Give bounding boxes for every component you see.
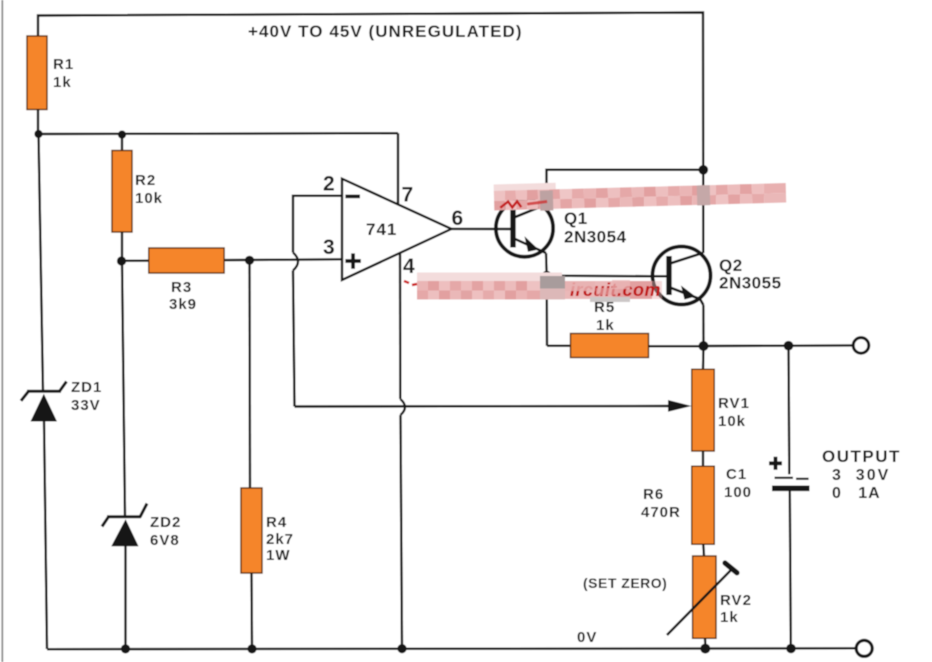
node junction output-RV1 bbox=[699, 341, 709, 351]
wire C1 branch top bbox=[787, 346, 790, 475]
svg-text:1k: 1k bbox=[53, 74, 72, 91]
svg-text:Q1: Q1 bbox=[564, 209, 588, 228]
svg-text:3k9: 3k9 bbox=[169, 296, 197, 313]
wire left vertical to ZD1 bbox=[39, 134, 44, 392]
node junction R4 branch bbox=[245, 256, 254, 265]
wire Q1 collector up and across bbox=[547, 170, 704, 205]
svg-text:R6: R6 bbox=[643, 486, 664, 503]
wire R4 branch upper bbox=[248, 260, 251, 488]
svg-text:4: 4 bbox=[403, 255, 415, 278]
watermark band 2 bbox=[404, 273, 662, 303]
transistor Q1 bbox=[496, 200, 553, 257]
wire feedback horizontal to RV1 wiper bbox=[295, 405, 673, 408]
potentiometer RV1 bbox=[692, 369, 714, 451]
zener ZD2 bbox=[102, 504, 147, 547]
potentiometer RV2 bbox=[693, 556, 716, 638]
svg-text:3: 3 bbox=[323, 236, 335, 259]
svg-text:3 30V: 3 30V bbox=[832, 467, 890, 484]
svg-text:470R: 470R bbox=[641, 504, 681, 521]
gray block band 2 bbox=[540, 276, 565, 289]
svg-text:10k: 10k bbox=[135, 190, 163, 207]
resistor R1 bbox=[27, 36, 47, 110]
svg-text:7: 7 bbox=[402, 184, 414, 207]
svg-text:1W: 1W bbox=[266, 547, 291, 564]
wire pin4 to ground rail with hop bbox=[399, 254, 402, 400]
wire rail2 bbox=[38, 132, 398, 135]
wire ZD1 to bottom rail bbox=[44, 420, 47, 649]
op-amp U1 741 triangle bbox=[342, 179, 451, 280]
svg-text:2N3054: 2N3054 bbox=[564, 228, 627, 247]
svg-text:R2: R2 bbox=[135, 172, 156, 189]
watermark band 1 bbox=[494, 177, 787, 212]
svg-text:2: 2 bbox=[323, 173, 335, 196]
wire Q1 emitter to Q2 base bbox=[547, 275, 667, 278]
wire to R5 left bbox=[547, 345, 571, 347]
node junction rail-ZD2 bbox=[121, 644, 130, 653]
transistor Q2 bbox=[653, 247, 711, 306]
wire C1 bottom bbox=[790, 491, 791, 649]
svg-text:RV1: RV1 bbox=[718, 395, 750, 412]
gray strip under band 2 bbox=[590, 297, 630, 302]
node junction rail-R4 bbox=[247, 644, 256, 653]
resistor R3 bbox=[149, 248, 224, 273]
red remnant in band 1 bbox=[500, 201, 521, 208]
node junction rail-pin4 bbox=[397, 644, 406, 653]
wire ZD2 branch upper bbox=[122, 261, 125, 517]
resistor R6 bbox=[692, 466, 715, 544]
red dots left of band 2 bbox=[404, 281, 417, 285]
node junction rail2-left bbox=[34, 130, 42, 138]
wire R5 right stub bbox=[649, 345, 704, 347]
svg-text:1k: 1k bbox=[596, 317, 615, 334]
terminal output minus bbox=[856, 640, 872, 656]
RV2 wiper diagonal bbox=[667, 570, 732, 636]
svg-text:R3: R3 bbox=[171, 279, 192, 296]
svg-text:+40V TO 45V (UNREGULATED): +40V TO 45V (UNREGULATED) bbox=[248, 22, 523, 41]
terminal output plus bbox=[853, 338, 869, 354]
wire pin6 to Q1 base bbox=[451, 228, 510, 231]
svg-text:2k7: 2k7 bbox=[266, 531, 294, 548]
svg-text:R1: R1 bbox=[53, 56, 74, 73]
wire bottom rail bbox=[47, 647, 856, 650]
node junction collector rail bbox=[699, 165, 709, 175]
wire RV2 to bottom rail bbox=[704, 638, 707, 649]
wire R1 bottom to rail2 bbox=[37, 109, 39, 134]
node junction output-C1 bbox=[784, 341, 794, 351]
wire R3 row bbox=[122, 259, 342, 261]
zener ZD1 bbox=[21, 382, 67, 422]
svg-text:(SET ZERO): (SET ZERO) bbox=[583, 575, 667, 591]
resistor R4 bbox=[241, 488, 262, 573]
svg-text:Q2: Q2 bbox=[719, 256, 743, 275]
svg-text:33V: 33V bbox=[71, 397, 101, 414]
svg-text:ZD2: ZD2 bbox=[150, 514, 181, 531]
node junction R2-ZD2 bbox=[117, 256, 126, 265]
svg-text:6: 6 bbox=[452, 207, 464, 230]
svg-text:C1: C1 bbox=[726, 466, 747, 483]
arrowhead RV1 wiper bbox=[668, 400, 692, 412]
op-amp minus sign bbox=[345, 195, 360, 199]
wire Q2 emitter down bbox=[702, 305, 704, 346]
RV2 wiper T-bar bbox=[725, 563, 737, 573]
svg-text:OUTPUT: OUTPUT bbox=[822, 447, 901, 466]
svg-text:RV2: RV2 bbox=[720, 592, 752, 609]
wire output row bbox=[704, 344, 853, 347]
node junction rail2-R2 bbox=[118, 131, 126, 139]
wire RV1 top stub bbox=[702, 346, 705, 369]
node junction Q1 emitter bbox=[542, 271, 552, 281]
wire R2 stub top bbox=[121, 135, 123, 151]
svg-text:2N3055: 2N3055 bbox=[719, 274, 782, 293]
resistor R2 bbox=[112, 151, 132, 233]
wire pin7 drop bbox=[397, 133, 399, 204]
wire R4 to bottom rail bbox=[250, 573, 253, 649]
svg-text:100: 100 bbox=[724, 484, 752, 501]
resistor R5 bbox=[571, 334, 649, 358]
svg-text:R4: R4 bbox=[266, 514, 287, 531]
svg-text:10k: 10k bbox=[718, 413, 746, 430]
node junction rail-C1 bbox=[786, 644, 796, 654]
wire ZD2 branch lower bbox=[124, 545, 126, 649]
node junction rail-RV2 bbox=[700, 644, 710, 654]
wire RV1-R6 bbox=[702, 451, 704, 466]
wire R2 stub bottom bbox=[121, 232, 123, 261]
svg-text:741: 741 bbox=[366, 220, 397, 239]
svg-text:ZD1: ZD1 bbox=[71, 379, 102, 396]
svg-text:0 1A: 0 1A bbox=[832, 485, 881, 502]
wire pin2 to feedback vertical with hop bbox=[293, 196, 342, 253]
wire top supply rail bbox=[38, 13, 703, 254]
op-amp plus sign bbox=[345, 253, 360, 268]
capacitor C1 bbox=[769, 457, 810, 489]
wire R6-RV2 bbox=[702, 544, 705, 556]
svg-text:0V: 0V bbox=[577, 629, 597, 646]
wire shadow blocks in band 1 bbox=[540, 190, 554, 210]
svg-text:6V8: 6V8 bbox=[150, 532, 180, 549]
wire Q1 emitter down bbox=[546, 253, 547, 346]
svg-text:1k: 1k bbox=[720, 609, 739, 626]
